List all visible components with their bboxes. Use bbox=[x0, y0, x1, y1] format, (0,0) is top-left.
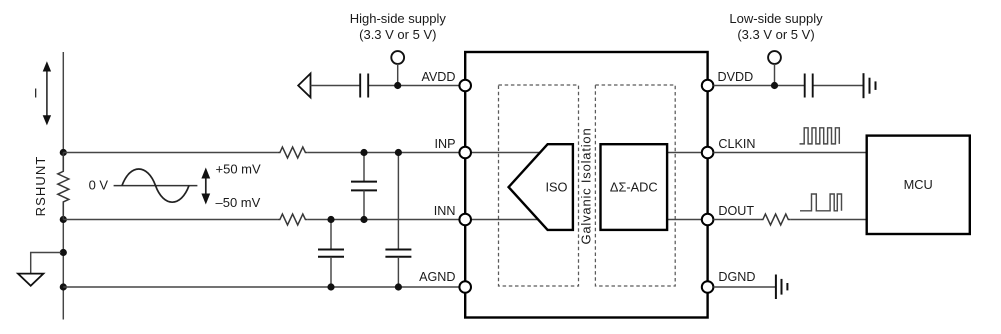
pin AGND bbox=[459, 281, 471, 293]
svg-text:DGND: DGND bbox=[718, 270, 755, 284]
pin INN bbox=[459, 214, 471, 226]
resistor INP series bbox=[277, 147, 307, 158]
wire INN row bbox=[63, 219, 459, 221]
label AVDD bbox=[421, 70, 455, 84]
node AVDD supply junction bbox=[394, 82, 401, 89]
label Low-side supply bbox=[729, 11, 823, 42]
capacitor INP to AGND bbox=[385, 153, 411, 288]
wire AVDD branch bbox=[311, 85, 460, 87]
dashed box isolation left bbox=[499, 85, 579, 286]
terminal low-side supply bbox=[768, 51, 781, 85]
svg-text:+50 mV: +50 mV bbox=[216, 162, 261, 177]
wire DOUT to resistor bbox=[713, 219, 760, 221]
wire INN internal bbox=[471, 219, 546, 221]
svg-text:High-side supply: High-side supply bbox=[350, 11, 447, 26]
label RSHUNT bbox=[33, 156, 48, 217]
clock waveform CLKIN bbox=[800, 128, 840, 144]
svg-text:(3.3 V or 5 V): (3.3 V or 5 V) bbox=[737, 27, 814, 42]
terminal high-side supply bbox=[391, 51, 404, 85]
label INP bbox=[435, 137, 456, 151]
wire left rail bbox=[62, 52, 64, 320]
wire resistor to MCU bbox=[790, 219, 866, 221]
IC box bbox=[465, 52, 707, 318]
wire CLKIN to MCU bbox=[713, 152, 866, 154]
node INN-rail junction bbox=[60, 216, 67, 223]
svg-text:MCU: MCU bbox=[904, 177, 933, 192]
node AGND-rail junction bbox=[60, 283, 67, 290]
resistor RSHUNT bbox=[58, 153, 69, 220]
adc U1 bbox=[601, 144, 668, 230]
svg-text:ISO: ISO bbox=[545, 179, 567, 194]
svg-text:ΔΣ-ADC: ΔΣ-ADC bbox=[610, 179, 658, 194]
pin INP bbox=[459, 147, 471, 159]
label I bbox=[34, 86, 38, 101]
ground high-side bbox=[18, 253, 61, 286]
svg-text:AVDD: AVDD bbox=[421, 70, 455, 84]
svg-text:Low-side supply: Low-side supply bbox=[729, 11, 823, 26]
svg-text:0 V: 0 V bbox=[89, 178, 109, 193]
label INN bbox=[434, 204, 456, 218]
wire CLKIN internal bbox=[665, 152, 702, 154]
sine source zero line bbox=[114, 185, 198, 187]
off-page arrow high-side bbox=[298, 74, 310, 98]
node INP cap junction bbox=[395, 149, 402, 156]
wire DOUT internal bbox=[665, 219, 702, 221]
node INN diff-cap junction bbox=[360, 216, 367, 223]
svg-text:–50 mV: –50 mV bbox=[216, 195, 261, 210]
current arrow I bbox=[43, 61, 51, 125]
dashed box isolation right bbox=[595, 85, 675, 286]
wire DVDD branch bbox=[713, 85, 863, 87]
resistor DOUT series bbox=[760, 214, 790, 225]
svg-text:RSHUNT: RSHUNT bbox=[33, 156, 48, 217]
MCU U2 bbox=[867, 136, 970, 234]
node INP-rail junction bbox=[60, 149, 67, 156]
wire INP internal bbox=[471, 152, 546, 154]
label High-side supply bbox=[350, 11, 447, 42]
svg-text:INN: INN bbox=[434, 204, 456, 218]
node INP diff-cap junction bbox=[360, 149, 367, 156]
capacitor INN to AGND bbox=[318, 220, 344, 288]
label DVDD bbox=[718, 70, 754, 84]
wire AGND row bbox=[63, 286, 459, 288]
svg-text:(3.3 V or 5 V): (3.3 V or 5 V) bbox=[359, 27, 436, 42]
ground DGND bbox=[776, 275, 788, 300]
sine wave bbox=[122, 169, 189, 202]
node gnd-branch junction bbox=[60, 249, 67, 256]
wire INP row bbox=[63, 152, 459, 154]
label 0 V bbox=[89, 178, 109, 193]
pin AVDD bbox=[459, 80, 471, 92]
pin DGND bbox=[702, 281, 714, 293]
svg-text:DVDD: DVDD bbox=[718, 70, 754, 84]
label AGND bbox=[419, 270, 455, 284]
label DGND bbox=[718, 270, 755, 284]
resistor INN series bbox=[277, 214, 307, 225]
svg-text:CLKIN: CLKIN bbox=[718, 137, 755, 151]
amplitude double arrow bbox=[201, 168, 210, 205]
node DVDD supply junction bbox=[771, 82, 778, 89]
pin CLKIN bbox=[702, 147, 714, 159]
ground low-side supply bbox=[864, 73, 876, 98]
op-amp ISO bbox=[509, 144, 573, 230]
pin DVDD bbox=[702, 80, 714, 92]
label DOUT bbox=[718, 204, 754, 218]
data waveform DOUT bbox=[800, 194, 841, 211]
capacitor differential INP-INN bbox=[351, 153, 377, 220]
svg-text:Galvanic Isolation: Galvanic Isolation bbox=[578, 127, 593, 244]
node AGND cap junction right bbox=[395, 283, 402, 290]
svg-text:INP: INP bbox=[435, 137, 456, 151]
pin DOUT bbox=[702, 214, 714, 226]
svg-text:DOUT: DOUT bbox=[718, 204, 754, 218]
node AGND cap junction left bbox=[327, 283, 334, 290]
capacitor AVDD bypass bbox=[360, 74, 368, 98]
svg-text:AGND: AGND bbox=[419, 270, 455, 284]
node INN cap junction bbox=[327, 216, 334, 223]
wire DGND to ground bbox=[713, 286, 776, 288]
capacitor DVDD bypass bbox=[805, 74, 813, 98]
label CLKIN bbox=[718, 137, 755, 151]
label Galvanic Isolation bbox=[578, 127, 593, 244]
label -50 mV bbox=[216, 195, 261, 210]
svg-text:I: I bbox=[34, 86, 38, 101]
label +50 mV bbox=[216, 162, 261, 177]
